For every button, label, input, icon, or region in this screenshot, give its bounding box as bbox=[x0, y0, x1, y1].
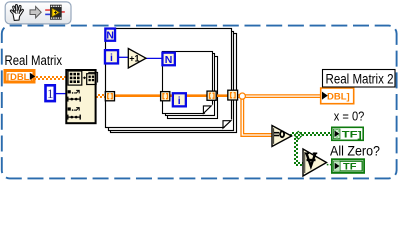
svg-text:i: i bbox=[110, 52, 113, 64]
svg-text:[DBL]: [DBL] bbox=[7, 72, 33, 83]
svg-text:1: 1 bbox=[47, 87, 53, 101]
svg-text:N: N bbox=[106, 30, 114, 42]
svg-text:TF: TF bbox=[343, 162, 357, 173]
svg-text:TF]: TF] bbox=[342, 130, 362, 141]
svg-text:N: N bbox=[165, 54, 173, 66]
svg-text:i: i bbox=[178, 95, 181, 107]
svg-text:DBL]: DBL] bbox=[327, 92, 350, 103]
svg-text:x = 0?: x = 0? bbox=[334, 109, 365, 124]
svg-text:All Zero?: All Zero? bbox=[330, 144, 380, 159]
svg-text:Real Matrix: Real Matrix bbox=[5, 53, 63, 68]
svg-text:Real Matrix 2: Real Matrix 2 bbox=[326, 72, 394, 87]
svg-text:+1: +1 bbox=[129, 54, 139, 64]
